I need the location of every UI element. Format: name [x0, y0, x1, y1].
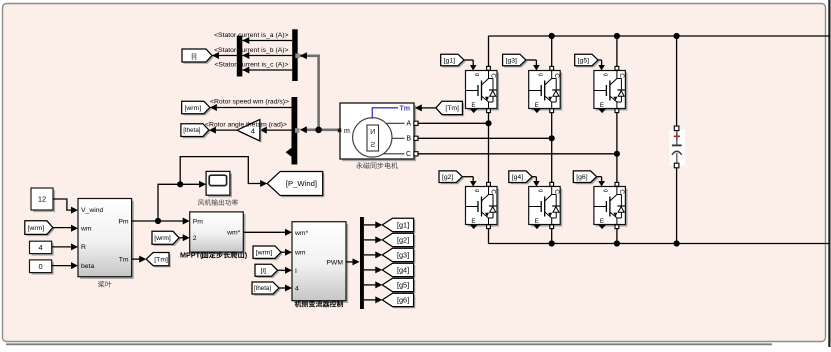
svg-text:C: C — [490, 73, 497, 78]
svg-text:4: 4 — [295, 286, 299, 293]
svg-text:[g6]: [g6] — [576, 174, 587, 181]
svg-text:[theta]: [theta] — [254, 285, 271, 292]
svg-text:[g6]: [g6] — [397, 295, 409, 304]
svg-text:[g3]: [g3] — [506, 57, 517, 64]
svg-text:C: C — [553, 73, 560, 78]
svg-text:I: I — [295, 268, 297, 275]
svg-text:Tm: Tm — [119, 256, 129, 263]
svg-text:V_wind: V_wind — [81, 207, 104, 214]
svg-text:4: 4 — [39, 243, 43, 252]
svg-text:E: E — [600, 218, 604, 225]
svg-text:beta: beta — [81, 263, 94, 270]
svg-text:[g5]: [g5] — [397, 280, 409, 289]
svg-text:N: N — [370, 127, 375, 136]
svg-text:<Rotor speed wm (rad/s)>: <Rotor speed wm (rad/s)> — [210, 98, 289, 105]
svg-text:<Stator current is_b (A)>: <Stator current is_b (A)> — [214, 47, 288, 54]
svg-text:Pm: Pm — [118, 218, 129, 225]
svg-text:[g1]: [g1] — [444, 57, 455, 64]
svg-text:[wrm]: [wrm] — [154, 235, 171, 242]
svg-text:PWM: PWM — [326, 259, 343, 266]
svg-text:C: C — [553, 189, 560, 194]
svg-text:B: B — [406, 136, 411, 143]
svg-text:[i]: [i] — [191, 53, 196, 60]
svg-text:[Tm]: [Tm] — [154, 256, 168, 263]
svg-text:[g5]: [g5] — [578, 57, 589, 64]
svg-text:0: 0 — [39, 262, 43, 271]
svg-text:[Tm]: [Tm] — [445, 105, 459, 112]
svg-text:g: g — [537, 189, 543, 192]
svg-text:g: g — [603, 73, 609, 76]
svg-text:wm: wm — [294, 250, 306, 257]
svg-text:E: E — [471, 218, 475, 225]
svg-text:Pm: Pm — [193, 218, 204, 225]
svg-text:[wrm]: [wrm] — [184, 105, 201, 112]
svg-text:[i]: [i] — [261, 268, 266, 275]
svg-text:wm*: wm* — [294, 230, 309, 237]
svg-text:12: 12 — [38, 195, 46, 204]
svg-text:[g4]: [g4] — [512, 174, 523, 181]
svg-text:C: C — [406, 151, 411, 158]
svg-text:<Stator current is_a (A)>: <Stator current is_a (A)> — [214, 32, 288, 39]
svg-text:[g2]: [g2] — [397, 235, 409, 244]
svg-text:C: C — [490, 189, 497, 194]
svg-text:[g1]: [g1] — [397, 220, 409, 229]
svg-text:g: g — [474, 189, 480, 192]
svg-text:g: g — [474, 73, 480, 76]
svg-text:MPPT(: MPPT( — [180, 251, 203, 260]
svg-text:[wrm]: [wrm] — [28, 225, 45, 232]
svg-text:R: R — [81, 244, 86, 251]
svg-text:E: E — [535, 102, 539, 109]
svg-text:[theta]: [theta] — [183, 127, 200, 134]
svg-text:[g2]: [g2] — [442, 174, 453, 181]
svg-text:g: g — [603, 189, 609, 192]
svg-text:[P_Wind]: [P_Wind] — [286, 179, 317, 188]
svg-text:S: S — [370, 140, 375, 149]
svg-text:E: E — [471, 102, 475, 109]
svg-text:C: C — [618, 189, 625, 194]
svg-text:[g3]: [g3] — [397, 250, 409, 259]
svg-text:m: m — [344, 128, 350, 135]
svg-text:C: C — [618, 73, 625, 78]
svg-text:wm*: wm* — [226, 230, 241, 237]
svg-text:[g4]: [g4] — [397, 265, 409, 274]
svg-text:<Rotor angle thetam (rad)>: <Rotor angle thetam (rad)> — [205, 121, 287, 128]
svg-text:[wrm]: [wrm] — [256, 250, 273, 257]
svg-text:2: 2 — [193, 235, 197, 242]
svg-text:E: E — [600, 102, 604, 109]
svg-text:A: A — [406, 121, 411, 128]
svg-text:g: g — [537, 73, 543, 76]
svg-text:wm: wm — [80, 226, 92, 233]
svg-text:E: E — [535, 218, 539, 225]
svg-text:Tm: Tm — [400, 105, 411, 112]
svg-text:<Stator current is_c (A)>: <Stator current is_c (A)> — [214, 61, 288, 68]
